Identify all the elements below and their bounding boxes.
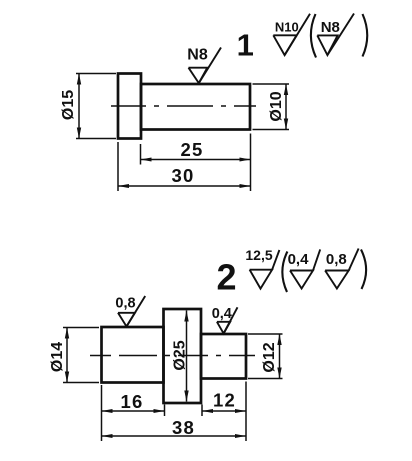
svg-text:16: 16 bbox=[121, 391, 144, 412]
svg-text:1: 1 bbox=[237, 28, 254, 63]
surface finish 0,4 on part 2 right section bbox=[212, 306, 238, 334]
svg-text:12,5: 12,5 bbox=[245, 247, 272, 263]
roughness note part 2: 0,8 symbol bbox=[325, 249, 359, 289]
svg-text:Ø14: Ø14 bbox=[49, 342, 66, 372]
dimension Ø10 bbox=[253, 84, 290, 130]
svg-text:Ø12: Ø12 bbox=[261, 342, 278, 372]
svg-text:0,8: 0,8 bbox=[326, 251, 347, 268]
part 2 left section outline bbox=[102, 327, 164, 383]
svg-text:N8: N8 bbox=[321, 19, 340, 36]
part 1 shaft outline bbox=[141, 84, 250, 130]
svg-text:0,4: 0,4 bbox=[288, 251, 310, 268]
roughness note part 2: 0,4 symbol bbox=[288, 249, 321, 288]
dimension Ø14 bbox=[49, 328, 99, 383]
svg-text:38: 38 bbox=[172, 417, 195, 438]
part 2 centerline bbox=[90, 355, 255, 357]
dimension 12 bbox=[202, 382, 246, 442]
dimension 30 bbox=[118, 142, 251, 191]
svg-text:N8: N8 bbox=[187, 47, 208, 64]
part 1 centerline bbox=[111, 105, 257, 107]
opening parenthesis part 2 note bbox=[282, 252, 287, 293]
svg-text:N10: N10 bbox=[275, 19, 299, 34]
dimension 25 bbox=[141, 134, 251, 165]
closing parenthesis part 2 note bbox=[361, 250, 366, 290]
svg-text:30: 30 bbox=[172, 165, 195, 186]
svg-text:0,4: 0,4 bbox=[212, 306, 232, 322]
dimension 38 bbox=[102, 417, 247, 438]
general roughness note part 2: 12,5 symbol bbox=[245, 247, 279, 289]
part 2 middle section outline bbox=[164, 309, 202, 403]
roughness note part 1: N8 symbol in parentheses bbox=[317, 14, 354, 56]
dimension Ø12 bbox=[248, 334, 283, 379]
svg-text:Ø15: Ø15 bbox=[60, 90, 77, 120]
svg-text:0,8: 0,8 bbox=[115, 296, 135, 312]
svg-text:2: 2 bbox=[216, 257, 236, 298]
part 1 head outline bbox=[118, 74, 141, 139]
part 2 right section outline bbox=[201, 334, 246, 379]
surface finish 0,8 on part 2 left section bbox=[115, 296, 145, 327]
opening parenthesis part 1 note bbox=[311, 14, 316, 58]
svg-text:Ø25: Ø25 bbox=[172, 340, 189, 370]
surface finish N8 on part 1 shaft bbox=[187, 47, 221, 84]
svg-text:25: 25 bbox=[181, 139, 204, 160]
svg-text:12: 12 bbox=[213, 390, 236, 411]
closing parenthesis part 1 note bbox=[363, 14, 368, 57]
dimension Ø15 bbox=[60, 74, 116, 139]
dimension Ø25 bbox=[172, 311, 189, 402]
svg-text:Ø10: Ø10 bbox=[268, 91, 285, 121]
general roughness note part 1: N10 symbol bbox=[273, 14, 310, 55]
dimension 16 bbox=[102, 385, 165, 441]
